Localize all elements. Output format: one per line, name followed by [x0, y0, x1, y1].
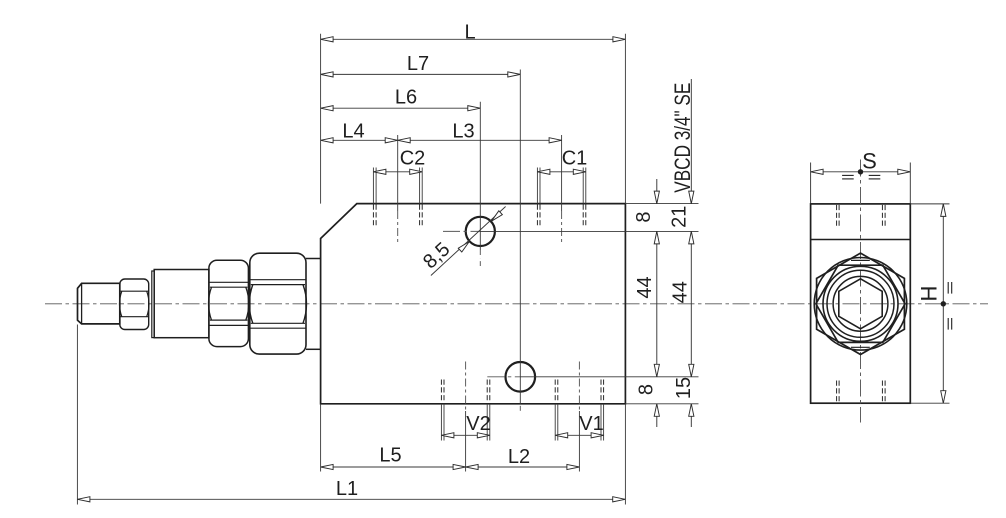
body right extension line bottom: [624, 404, 626, 505]
dimension column 21 / 44 / 15: [690, 79, 692, 204]
adjuster cylinder circle: [827, 270, 894, 337]
dimension L6: [321, 107, 481, 109]
hex chamfer circle: [814, 258, 907, 351]
hex socket: [839, 279, 882, 329]
bottom hole horiz centerline: [487, 376, 520, 378]
svg-text:V1: V1: [579, 413, 603, 435]
C2 port hidden thread lines: [372, 168, 374, 204]
hex across-flats circle: [823, 266, 898, 341]
dimension L7: [321, 73, 521, 75]
svg-text:L7: L7: [407, 53, 429, 75]
top hole (8.5 dia): [466, 217, 495, 246]
svg-text:S: S: [862, 148, 877, 173]
svg-text:44: 44: [634, 276, 656, 298]
C1 center line: [561, 135, 563, 211]
V1 center line: [578, 362, 580, 412]
C2 center line: [397, 135, 399, 211]
svg-text:H: H: [917, 286, 942, 302]
svg-text:C1: C1: [562, 147, 588, 169]
end view hidden port lines top: [836, 205, 838, 227]
dimension C1: [537, 171, 585, 173]
dimension L: [321, 38, 626, 40]
dimension L5: [321, 466, 466, 468]
dimension L3: [398, 139, 562, 141]
neck top line: [306, 258, 321, 260]
svg-text:8: 8: [633, 211, 655, 222]
svg-text:L5: L5: [379, 445, 401, 467]
bottom hole centerline below edge: [519, 406, 521, 411]
svg-text:15: 15: [673, 377, 695, 399]
end view body rectangle: [811, 204, 911, 403]
bottom hole: [506, 362, 536, 392]
washer ring: [152, 271, 154, 338]
L6 extension through top hole: [479, 102, 481, 250]
svg-text:L3: L3: [452, 121, 474, 143]
hex apex chamfer bottom: [851, 346, 870, 348]
body left extension line top: [320, 34, 322, 204]
svg-text:C2: C2: [400, 147, 426, 169]
bottom edge extended right: [625, 403, 698, 405]
dimension column 8 / 44 / 8: [656, 179, 658, 204]
L7 extension through bottom hole: [519, 70, 521, 404]
stem threaded tip: [78, 283, 120, 324]
svg-text:L: L: [464, 22, 475, 44]
C1 port hidden thread lines: [536, 168, 538, 204]
V2 port hidden thread lines: [440, 380, 442, 403]
body left extension line bottom: [320, 404, 322, 472]
end view top band line: [811, 239, 911, 241]
small hex (adjuster locknut) chamfer lines: [120, 290, 149, 292]
medium hex nut chamfer lines: [209, 281, 249, 283]
svg-text:L1: L1: [336, 478, 358, 500]
end view vertical centerline: [860, 160, 862, 423]
svg-text:L6: L6: [395, 87, 417, 109]
large hex nut outline: [250, 253, 306, 354]
main horizontal centerline: [45, 303, 988, 305]
L1 extension line at stem tip: [76, 325, 78, 505]
dimension L2: [466, 466, 580, 468]
svg-text:L2: L2: [508, 446, 530, 468]
small hex (adjuster locknut) middle band arcs: [120, 291, 122, 317]
valve body outline with chamfer: [321, 204, 626, 404]
top hole horiz centerline: [443, 230, 480, 232]
dimension L1: [77, 498, 625, 500]
medium hex nut outline: [209, 260, 249, 346]
svg-text:L4: L4: [342, 121, 364, 143]
V2 center line: [465, 362, 467, 412]
socket chamfer circle: [833, 276, 888, 331]
hex apex chamfer top: [851, 259, 870, 261]
dimension H: [910, 203, 949, 205]
adjuster cylinder: [154, 270, 209, 338]
stem tip chamfer edge: [81, 283, 83, 324]
end view hidden port lines bottom: [836, 381, 838, 403]
dimension V2: [441, 434, 489, 436]
neck bottom line: [306, 348, 321, 350]
body right extension line top: [624, 34, 626, 204]
svg-text:21: 21: [669, 206, 691, 228]
svg-text:44: 44: [670, 281, 692, 303]
svg-text:VBCD 3/4" SE: VBCD 3/4" SE: [670, 83, 695, 193]
large hex nut middle band arcs: [249, 285, 253, 324]
svg-text:V2: V2: [466, 413, 490, 435]
dimension V1: [555, 434, 603, 436]
small hex (adjuster locknut) outline: [120, 279, 149, 330]
medium hex nut middle band arcs: [209, 287, 212, 320]
svg-text:8: 8: [636, 384, 658, 395]
top hole line extended right: [480, 230, 698, 232]
dimension L4: [321, 139, 398, 141]
medium hex hexagon (rotated 30deg): [816, 265, 905, 342]
top edge extended right: [625, 203, 698, 205]
dimension 8,5 diagonal (hole diameter): [431, 207, 506, 276]
bottom hole line extended right: [520, 376, 698, 378]
dimension C2: [373, 171, 422, 173]
V1 port hidden thread lines: [554, 380, 556, 403]
dimension S: [810, 163, 812, 204]
hex nut outer hexagon: [817, 253, 905, 354]
large hex nut chamfer lines: [250, 279, 306, 281]
